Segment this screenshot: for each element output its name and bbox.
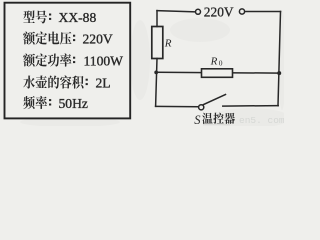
svg-text:2L: 2L xyxy=(96,75,111,90)
svg-text:50Hz: 50Hz xyxy=(59,96,88,111)
row3 额定功率 1100W xyxy=(23,53,75,66)
switch S pivot contact xyxy=(199,105,204,110)
terminal left (220V) xyxy=(196,9,201,14)
wire left rail lower xyxy=(156,59,157,107)
nameplate frame xyxy=(5,3,131,119)
wire left rail upper xyxy=(156,11,158,27)
paper mottling xyxy=(20,10,290,128)
wire bottom (left segment) xyxy=(156,105,199,107)
resistor R0 xyxy=(202,69,233,78)
wire bottom (right segment) xyxy=(223,105,278,108)
svg-text:220V: 220V xyxy=(204,5,234,20)
wire top (left segment) xyxy=(157,11,195,12)
node junction right xyxy=(277,71,281,75)
label 温控器 xyxy=(202,113,235,124)
svg-text:en5. com: en5. com xyxy=(239,115,284,126)
svg-text:220V: 220V xyxy=(83,31,113,46)
resistor R xyxy=(152,27,163,59)
switch S blade xyxy=(203,95,225,105)
wire middle (node to node through R0) xyxy=(156,71,279,74)
wire top (right segment) xyxy=(245,11,281,13)
svg-text:R: R xyxy=(210,55,218,67)
row2 额定电压 220V xyxy=(23,32,75,45)
watermark fragment under label xyxy=(203,124,230,125)
svg-text:XX-88: XX-88 xyxy=(59,10,97,25)
terminal right (220V) xyxy=(239,9,244,14)
node junction left xyxy=(154,71,158,75)
svg-text:S: S xyxy=(194,113,201,126)
background paper xyxy=(0,0,284,126)
svg-text:R: R xyxy=(164,37,172,49)
row5 频率 50Hz xyxy=(23,96,51,109)
row1 型号 XX-88 xyxy=(23,10,51,23)
svg-text:0: 0 xyxy=(219,58,223,67)
svg-text:1100W: 1100W xyxy=(84,53,124,68)
wire right rail xyxy=(278,12,281,106)
row4 水壶的容积 2L xyxy=(23,75,88,88)
